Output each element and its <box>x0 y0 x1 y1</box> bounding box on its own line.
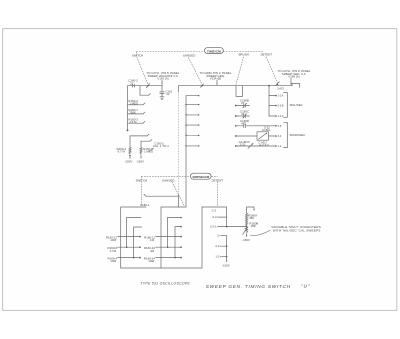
resistor R160-2 6.7M <box>117 147 132 154</box>
wire: main bus left segment <box>128 85 163 87</box>
wire: dashed drop detent <box>266 57 277 83</box>
svg-text:750K: 750K <box>129 111 136 115</box>
svg-text:A-2 3-7: A-2 3-7 <box>259 143 269 147</box>
svg-text:22: 22 <box>166 92 170 96</box>
wire: L to R160-2 resistor <box>130 134 149 147</box>
svg-text:BRUSH: BRUSH <box>239 52 249 56</box>
node contact 2-2 <box>212 215 226 219</box>
node wafer contact 6 <box>185 145 199 146</box>
wire: rotor hook under bus <box>236 86 243 97</box>
svg-text:TYPE 531 OSCILLOSCOPE: TYPE 531 OSCILLOSCOPE <box>140 282 190 286</box>
switch frame 2 nested arm 2 <box>174 226 182 259</box>
resistor R160-8 4.7M row <box>108 246 141 253</box>
capacitor C160D row <box>235 119 277 127</box>
node wiper contact on bus <box>146 84 149 88</box>
capacitor C160B row <box>235 99 250 108</box>
node contact 2-3 <box>215 244 227 248</box>
svg-text:SWP/SEC/CM: SWP/SEC/CM <box>192 175 209 179</box>
label MILLISEC bracket <box>284 93 303 118</box>
resistor R160-11 1M row <box>144 236 182 243</box>
wire: dashed diagonal to wafer bottom <box>172 182 184 205</box>
svg-text:V163 (A): V163 (A) <box>157 77 168 81</box>
node DETENT label <box>261 52 273 56</box>
svg-text:47: 47 <box>241 112 245 116</box>
svg-text:1.5 M: 1.5 M <box>129 120 137 124</box>
svg-text:22: 22 <box>130 81 134 85</box>
wire: bus end step <box>292 83 299 87</box>
label TIME/CM knob box <box>205 48 224 54</box>
svg-text:1-2: 1-2 <box>278 145 282 148</box>
node wafer contact 2 <box>185 104 199 105</box>
resistor R160-12 4M row <box>144 246 182 253</box>
node detent wiper on bus <box>276 82 285 91</box>
svg-text:15B: 15B <box>250 224 255 228</box>
node text 1-2 row <box>278 145 282 148</box>
node -150V terminal left <box>125 155 133 164</box>
svg-text:MICROSEC: MICROSEC <box>290 133 306 137</box>
label MICROSEC bracket <box>284 122 306 147</box>
node SWITCH label lower <box>136 179 147 183</box>
svg-text:350: 350 <box>249 216 254 220</box>
resistor R160-14 10M row <box>144 257 182 264</box>
node GANGED label lower <box>162 179 175 183</box>
svg-text:10M: 10M <box>110 238 116 242</box>
svg-text:1-2: 1-2 <box>215 255 220 259</box>
node -150V pot terminal <box>242 234 250 243</box>
potentiometer lower body <box>246 227 248 233</box>
switch frame 1 nested arm 1 <box>126 218 141 249</box>
switch frame 1 nested arm 2 <box>133 227 142 258</box>
label quoted U <box>301 284 311 289</box>
node feed contact 1 <box>269 95 284 98</box>
wire: L to R160-8 resistor <box>141 140 152 148</box>
node junction pot wiper <box>246 222 259 229</box>
node note to cathode V163 <box>147 71 180 81</box>
resistor R160-7 750K rung <box>128 108 145 115</box>
node contact 1-2 <box>215 255 227 259</box>
wire: dashed drop to frame1 <box>141 176 143 205</box>
svg-text:10M: 10M <box>110 259 116 263</box>
node GANGED label <box>183 53 196 57</box>
label C161 22 <box>165 89 172 96</box>
capacitor C160-2 inline label <box>128 79 138 86</box>
ground <box>160 97 164 100</box>
svg-text:-150V: -150V <box>242 238 250 242</box>
node SWITCH label <box>132 54 143 58</box>
node junction on bus <box>268 85 270 87</box>
capacitor C160C row <box>235 110 250 119</box>
node DETENT label lower <box>212 179 224 183</box>
node BRUSH label <box>239 52 249 56</box>
resistor R160-8 1MEG <box>140 147 154 154</box>
label SWEEP GEN. TIMING SWITCH title <box>206 284 291 289</box>
wire: top gang dashed shaft <box>137 51 264 53</box>
label C160L adjust note <box>258 141 269 148</box>
svg-text:-150V: -150V <box>136 160 144 164</box>
svg-text:4.7M: 4.7M <box>110 249 117 253</box>
wire: leader from CAL note <box>149 148 154 151</box>
svg-text:V164 (A): V164 (A) <box>288 75 299 79</box>
svg-text:470: 470 <box>241 122 246 126</box>
svg-text:C160-1: C160-1 <box>140 203 150 207</box>
svg-text:1M: 1M <box>150 238 155 242</box>
node contact 2 <box>217 234 226 238</box>
resistor R160-4 10M row <box>108 257 141 264</box>
svg-text:2-A07: 2-A07 <box>277 88 284 91</box>
svg-text:SWITCH: SWITCH <box>132 54 143 58</box>
wire: left ladder vertical <box>127 86 129 132</box>
wire: main bus center segment <box>179 85 293 87</box>
svg-text:-100V: -100V <box>222 263 230 267</box>
svg-text:WITH 'MIL/SEC' CAL SWEEPS: WITH 'MIL/SEC' CAL SWEEPS <box>273 228 321 232</box>
label C160-2 CAL note <box>153 141 169 148</box>
node ganged wiper on bus <box>201 84 204 88</box>
wire: L-stub bus to first contact <box>140 86 150 96</box>
resistor R160-3 1.5M rung <box>128 117 145 124</box>
potentiometer wiper arrow <box>243 228 248 235</box>
potentiometer R160A top feed <box>247 207 255 213</box>
wire: dashed drop brush <box>236 57 244 85</box>
node wafer contact 5 <box>185 135 199 136</box>
svg-text:5-6: 5-6 <box>278 125 282 128</box>
label SWP/SEC/CM knob box <box>191 173 212 179</box>
wire: arrow from note to C161 <box>161 80 162 83</box>
wire: leader to variable note <box>250 230 270 235</box>
svg-text:2-3: 2-3 <box>215 244 220 248</box>
switch frame 3 top <box>202 207 227 227</box>
svg-text:1-2 A: 1-2 A <box>278 95 284 98</box>
svg-text:10M: 10M <box>148 259 154 263</box>
node -150V terminal right <box>136 155 144 164</box>
node CA-BOX wiper row <box>235 140 277 148</box>
svg-text:5-6 B: 5-6 B <box>278 105 284 108</box>
node text 5-6 row <box>278 125 282 128</box>
potentiometer R160A body <box>246 213 258 226</box>
wire: right feed vertical <box>268 86 270 116</box>
svg-text:GANGED: GANGED <box>162 179 175 183</box>
wire: dashed drop ganged <box>189 58 203 85</box>
svg-text:4M: 4M <box>150 249 155 253</box>
capacitor C161 <box>160 83 164 96</box>
svg-text:27: 27 <box>241 101 245 105</box>
wire: dashed drop switch-to-wiper <box>137 52 149 85</box>
svg-text:V134 (B): V134 (B) <box>210 77 221 81</box>
node wafer contact 1 <box>186 95 199 96</box>
switch frame 1 outer <box>121 207 146 268</box>
svg-text:2-2-1: 2-2-1 <box>210 225 217 229</box>
label TYPE 531 OSCILLOSCOPE <box>140 282 190 286</box>
wire: dashed drop to frame3 <box>216 182 218 207</box>
wire: arrow from note to bus <box>216 80 217 85</box>
svg-text:TIME/CM: TIME/CM <box>207 50 221 54</box>
node note to cathode V164 <box>278 69 311 79</box>
svg-text:6.7 M: 6.7 M <box>118 149 126 153</box>
node note to grid V134 <box>200 71 232 81</box>
wire: arrow from note to bus end <box>290 78 291 84</box>
resistor R160-21 10M row <box>106 236 141 243</box>
resistor R160-2 1MEG rung <box>128 99 145 106</box>
node feed contact 2 <box>269 105 284 108</box>
svg-text:" U ": " U " <box>301 284 311 289</box>
label C160-1 <box>140 203 150 207</box>
switch frame 2 nested arm 1 <box>167 217 182 248</box>
svg-text:DETENT: DETENT <box>261 52 273 56</box>
svg-text:3-12: 3-12 <box>264 126 270 130</box>
svg-text:1-2 C: 1-2 C <box>278 115 284 118</box>
svg-text:3-4: 3-4 <box>278 135 282 138</box>
wire: drop to -100V <box>222 236 230 268</box>
svg-text:2-32: 2-32 <box>240 143 246 147</box>
node wafer contact 4 <box>185 124 199 125</box>
svg-text:MILLISEC: MILLISEC <box>290 103 303 107</box>
node feed contact 3 <box>269 115 284 118</box>
switch frame 2 outer <box>161 207 186 268</box>
capacitor C160-2 inline ticks <box>133 84 135 87</box>
wire: wafer rotor vertical <box>185 96 187 207</box>
wire: mid gang dashed shaft <box>142 175 218 177</box>
capacitor C160L trimmer box row <box>235 126 277 141</box>
wire: row to potentiometer <box>210 225 247 229</box>
svg-text:C-2: C-2 <box>212 208 217 212</box>
label C-2 <box>212 208 217 212</box>
wire: bottom bus <box>121 207 202 268</box>
wire: wiper feed line <box>144 194 179 196</box>
svg-text:CAL .1 TO 4: CAL .1 TO 4 <box>153 144 169 148</box>
svg-text:GANGED: GANGED <box>183 53 196 57</box>
svg-text:-150V: -150V <box>125 160 133 164</box>
svg-text:2-2: 2-2 <box>212 215 217 219</box>
node wafer contact 3 <box>185 114 199 115</box>
wire: wafer left vertical <box>178 86 180 207</box>
node text 3-4 row <box>278 135 282 138</box>
svg-text:1 MEG: 1 MEG <box>129 102 139 106</box>
label variable mult note <box>271 225 321 232</box>
svg-text:SWEEP GEN. TIMING SWITCH: SWEEP GEN. TIMING SWITCH <box>206 284 291 289</box>
